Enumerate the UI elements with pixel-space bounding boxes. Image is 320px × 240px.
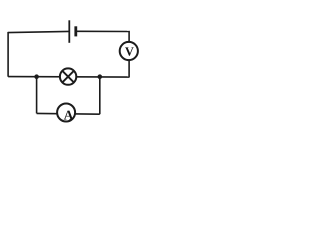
wire bottom horizontal [37,112,100,115]
svg-text:A: A [64,107,74,122]
wire right drop [99,77,101,114]
voltmeter V circle [120,42,138,60]
battery B1 long plate [68,20,70,43]
wire left drop [36,77,38,114]
battery B1 short plate [74,26,77,36]
wire right vertical lower [128,60,130,78]
wire top-right segment [76,30,129,32]
lamp L1 circle [60,68,76,84]
wire right vertical upper [128,31,130,42]
svg-text:V: V [125,45,134,59]
junction node left [34,74,39,79]
ammeter A circle [57,104,75,122]
wire top-left segment [8,31,69,32]
wire middle horizontal [8,76,129,79]
junction node right [98,74,103,79]
wire left vertical [7,32,9,77]
lamp L1 cross [62,71,74,83]
